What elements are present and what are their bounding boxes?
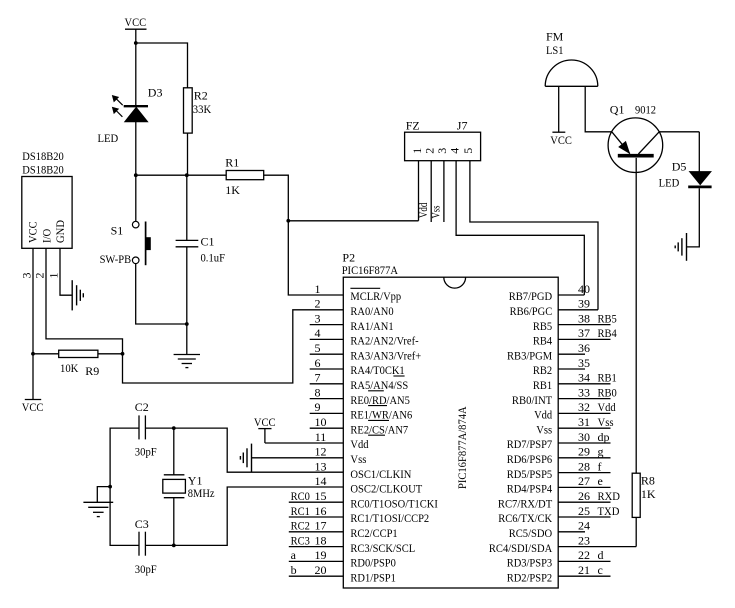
svg-text:RD2/PSP2: RD2/PSP2	[507, 570, 553, 584]
wire PIC pin 11 stub	[265, 442, 343, 444]
label LED (D3)	[98, 131, 119, 145]
wire PIC pin 16 stub	[289, 516, 344, 518]
wire R9 left	[33, 353, 59, 355]
svg-text:e: e	[598, 474, 603, 488]
pin number 14 (U1)	[315, 474, 327, 488]
pin name RC1/T1OSI/CCP2 (U1 pin 16)	[350, 511, 429, 525]
pin number 32 (U1)	[578, 400, 590, 414]
wire MCLR node to PIC pin1	[288, 221, 343, 295]
wire MCLR node to J7 pin1	[288, 220, 418, 222]
label C3	[135, 517, 149, 531]
svg-text:g: g	[598, 445, 604, 459]
mcu U1 P2 PIC16F877A body	[343, 277, 558, 588]
svg-text:RA2/AN2/Vref-: RA2/AN2/Vref-	[350, 334, 418, 348]
switch S1	[132, 221, 150, 265]
svg-text:RD7/PSP7: RD7/PSP7	[507, 437, 553, 451]
underline /RD (U1 pin 8)	[368, 405, 387, 407]
pin name Vdd (U1 pin 32)	[534, 408, 552, 422]
wire C1 bottom to ground node	[186, 247, 188, 324]
pin name RD1/PSP1 (U1 pin 20)	[350, 570, 396, 584]
value 8MHz (Y1)	[188, 486, 215, 500]
pin number 6 (U1)	[315, 356, 321, 370]
pin name RC0/T1OSO/T1CKI (U1 pin 15)	[350, 496, 438, 510]
pin name Vss (U1 pin 12)	[350, 452, 366, 466]
svg-text:RD3/PSP3: RD3/PSP3	[507, 556, 553, 570]
svg-text:RD1/PSP1: RD1/PSP1	[350, 570, 396, 584]
wire PIC pin 19 stub	[289, 560, 344, 562]
junction VCC node	[134, 41, 138, 45]
capacitor C2	[139, 415, 145, 439]
wire PIC pin 25 stub	[558, 516, 610, 518]
node RB1 (PIC pin 34)	[598, 371, 617, 385]
wire PIC pin 9 stub	[310, 412, 344, 414]
svg-text:1: 1	[315, 282, 321, 296]
pin name RD2/PSP2 (U1 pin 21)	[507, 570, 553, 584]
svg-text:2: 2	[315, 297, 321, 311]
pin name RD7/PSP7 (U1 pin 30)	[507, 437, 553, 451]
pin name RA3/AN3/Vref+ (U1 pin 5)	[350, 348, 421, 362]
svg-text:S1: S1	[111, 223, 124, 237]
LED D3	[112, 96, 148, 122]
wire PIC pin 34 stub	[558, 383, 610, 385]
node TXD (PIC pin 25)	[598, 504, 620, 518]
svg-text:23: 23	[578, 533, 590, 547]
pin number 34 (U1)	[578, 371, 590, 385]
pin number 25 (U1)	[578, 504, 590, 518]
LED D5	[688, 172, 711, 187]
wire PIC pin 31 stub	[558, 427, 610, 429]
svg-text:RC3: RC3	[291, 533, 310, 547]
wire PIC pin 40 stub	[558, 294, 584, 296]
net label Vdd (J7 pin1, rotated)	[416, 203, 430, 218]
wire J7 pin3 stub	[443, 161, 445, 222]
transistor Q1	[608, 118, 663, 173]
value 33K (R2)	[193, 102, 212, 116]
wire U2 I/O to R9 right node	[46, 248, 123, 353]
svg-text:39: 39	[578, 297, 590, 311]
svg-text:RC1/T1OSI/CCP2: RC1/T1OSI/CCP2	[350, 511, 429, 525]
pin name RA5/AN4/SS (U1 pin 7)	[350, 378, 408, 392]
svg-text:OSC1/CLKIN: OSC1/CLKIN	[350, 467, 411, 481]
pin number 24 (U1)	[578, 519, 590, 533]
svg-text:RC0/T1OSO/T1CKI: RC0/T1OSO/T1CKI	[350, 496, 438, 510]
wire VCC node to R2 top	[136, 43, 188, 88]
svg-text:RC6/TX/CK: RC6/TX/CK	[498, 511, 552, 525]
node dp (PIC pin 30)	[598, 430, 610, 444]
svg-text:15: 15	[315, 489, 327, 503]
wire PIC pin 23 stub	[558, 546, 636, 548]
speaker LS1	[545, 60, 598, 86]
pin number 4 (J7)	[447, 148, 461, 154]
label LS1	[546, 43, 564, 57]
svg-text:VCC: VCC	[550, 133, 572, 147]
pin name RB0/INT (U1 pin 33)	[512, 393, 553, 407]
svg-text:12: 12	[315, 445, 327, 459]
resistor R2	[184, 88, 193, 133]
svg-text:9: 9	[315, 400, 321, 414]
wire rail to C1 top	[186, 175, 188, 240]
pin number 5 (U1)	[315, 341, 321, 355]
junction U2-VCC / R9 left	[31, 352, 35, 356]
sensor U2 DS18B20 body	[22, 177, 72, 249]
svg-text:RC7/RX/DT: RC7/RX/DT	[498, 496, 553, 510]
svg-text:RB2: RB2	[533, 363, 552, 377]
svg-text:RE0/RD/AN5: RE0/RD/AN5	[350, 393, 410, 407]
svg-text:19: 19	[315, 548, 327, 562]
svg-text:Vdd: Vdd	[350, 437, 368, 451]
node f (PIC pin 28)	[598, 459, 602, 473]
svg-text:Vss: Vss	[428, 205, 442, 218]
power VCC (PIC pin 11)	[254, 415, 276, 443]
svg-text:FZ: FZ	[406, 119, 420, 133]
pin number 2 (U2 I/O)	[33, 273, 47, 279]
junction osc rail / ground	[108, 485, 112, 489]
svg-text:PIC16F877A: PIC16F877A	[342, 263, 399, 277]
wire osc bottom node to PIC pin14	[174, 487, 343, 545]
svg-text:34: 34	[578, 371, 590, 385]
svg-text:RD6/PSP6: RD6/PSP6	[507, 452, 553, 466]
value 30pF (C2)	[135, 445, 157, 459]
pin number 33 (U1)	[578, 385, 590, 399]
underline /AN4 (U1 pin 7)	[368, 390, 384, 392]
pin name Vss (U1 pin 31)	[536, 422, 552, 436]
svg-text:10: 10	[315, 415, 327, 429]
pin number 3 (J7)	[435, 148, 449, 154]
svg-text:a: a	[291, 548, 297, 562]
pin name OSC1/CLKIN (U1 pin 13)	[350, 467, 411, 481]
svg-text:R9: R9	[85, 364, 99, 378]
wire S1 bottom to ground node	[136, 264, 187, 324]
svg-text:J7: J7	[457, 119, 468, 133]
pin number 29 (U1)	[578, 445, 590, 459]
svg-text:RA3/AN3/Vref+: RA3/AN3/Vref+	[350, 348, 421, 362]
pin name OSC2/CLKOUT (U1 pin 14)	[350, 482, 422, 496]
pin name MCLR/Vpp (U1 pin 1)	[350, 289, 401, 303]
svg-text:RE2/CS/AN7: RE2/CS/AN7	[350, 422, 408, 436]
svg-text:3: 3	[315, 311, 321, 325]
svg-text:C2: C2	[135, 400, 149, 414]
value 9012 (Q1)	[635, 103, 656, 117]
svg-text:1K: 1K	[225, 183, 240, 197]
pin number 40 (U1)	[578, 282, 590, 296]
wire PIC pin 4 stub	[310, 338, 344, 340]
wire J7 pin2 stub	[430, 161, 432, 222]
svg-text:dp: dp	[598, 430, 610, 444]
svg-text:29: 29	[578, 445, 590, 459]
pin name RA1/AN1 (U1 pin 3)	[350, 319, 393, 333]
pin number 1 (J7)	[410, 148, 424, 154]
wire PIC pin 24 stub	[558, 531, 585, 533]
svg-text:RB4: RB4	[598, 326, 617, 340]
svg-text:RD5/PSP5: RD5/PSP5	[507, 467, 553, 481]
node c (PIC pin 21)	[598, 563, 603, 577]
pin name RD5/PSP5 (U1 pin 28)	[507, 467, 553, 481]
capacitor C3	[139, 532, 145, 556]
svg-text:1: 1	[46, 273, 60, 279]
underline /WR (U1 pin 9)	[368, 419, 389, 421]
label PIC16F877A/874A (rotated, inside U1)	[455, 406, 469, 489]
junction C3/Y1 bottom	[172, 544, 176, 548]
wire C3 to Y1 bottom node	[145, 544, 173, 546]
node RB4 (PIC pin 37)	[598, 326, 617, 340]
label D3	[148, 86, 163, 100]
pin number 1 (U2 GND)	[46, 273, 60, 279]
pin number 20 (U1)	[315, 563, 327, 577]
pin number 18 (U1)	[315, 533, 327, 547]
pin number 2 (U1)	[315, 297, 321, 311]
junction D3-rail	[134, 173, 138, 177]
svg-text:3: 3	[20, 273, 34, 279]
pin number 35 (U1)	[578, 356, 590, 370]
pin number 38 (U1)	[578, 311, 590, 325]
svg-text:21: 21	[578, 563, 590, 577]
wire PIC pin 8 stub	[310, 398, 344, 400]
label C2	[135, 400, 149, 414]
node Vdd (PIC pin 32)	[598, 400, 616, 414]
label R8	[641, 473, 655, 487]
wire PIC pin 21 stub	[558, 575, 610, 577]
pin number 19 (U1)	[315, 548, 327, 562]
ground (below C1)	[174, 324, 200, 368]
svg-text:9012: 9012	[635, 103, 656, 117]
svg-text:Vss: Vss	[350, 452, 366, 466]
junction R9 right / data node	[121, 352, 125, 356]
junction C2/Y1 top	[172, 426, 176, 430]
wire PIC pin 3 stub	[310, 324, 344, 326]
junction R2-rail	[185, 173, 189, 177]
wire osc left rail	[110, 428, 139, 545]
svg-text:R8: R8	[641, 473, 655, 487]
svg-text:0.1uF: 0.1uF	[201, 251, 226, 265]
node e (PIC pin 27)	[598, 474, 603, 488]
svg-text:VCC: VCC	[254, 415, 276, 429]
wire PIC pin 28 stub	[558, 472, 610, 474]
svg-text:Vdd: Vdd	[598, 400, 616, 414]
svg-text:I/O: I/O	[40, 228, 54, 243]
wire VCC node to D3 cathode	[135, 43, 137, 105]
node RB5 (PIC pin 38)	[598, 311, 617, 325]
svg-text:11: 11	[315, 430, 327, 444]
pin name RC7/RX/DT (U1 pin 26)	[498, 496, 553, 510]
wire PIC pin 36 stub	[558, 353, 585, 355]
resistor R1	[226, 171, 264, 180]
wire C2 to Y1 top node	[145, 427, 173, 429]
pin name RC6/TX/CK (U1 pin 25)	[498, 511, 552, 525]
pin number 3 (U2 VCC)	[20, 273, 34, 279]
svg-text:RB7/PGD: RB7/PGD	[509, 289, 553, 303]
wire PIC pin 22 stub	[558, 560, 610, 562]
pin number 2 (J7)	[423, 148, 437, 154]
node RC0 (PIC pin 15)	[291, 489, 310, 503]
wire R9 right	[98, 353, 123, 355]
svg-text:RA5/AN4/SS: RA5/AN4/SS	[350, 378, 408, 392]
node d (PIC pin 22)	[598, 548, 604, 562]
svg-text:C3: C3	[135, 517, 149, 531]
svg-text:b: b	[291, 563, 297, 577]
svg-text:f: f	[598, 459, 602, 473]
pin name RC5/SDO (U1 pin 24)	[509, 526, 553, 540]
label R2	[194, 89, 208, 103]
pin name RB2 (U1 pin 35)	[533, 363, 552, 377]
svg-text:20: 20	[315, 563, 327, 577]
label FZ (J7)	[406, 119, 420, 133]
wire PIC pin 26 stub	[558, 501, 610, 503]
pin name RA4/T0CK1 (U1 pin 6)	[350, 363, 404, 377]
pin name RB3/PGM (U1 pin 36)	[507, 348, 552, 362]
svg-text:RB4: RB4	[533, 334, 552, 348]
pin number 37 (U1)	[578, 326, 590, 340]
svg-text:VCC: VCC	[26, 221, 40, 243]
pin name RA0/AN0 (U1 pin 2)	[350, 304, 393, 318]
node RC3 (PIC pin 18)	[291, 533, 310, 547]
svg-text:RB1: RB1	[533, 378, 552, 392]
svg-text:24: 24	[578, 519, 590, 533]
pin name RD4/PSP4 (U1 pin 27)	[507, 482, 553, 496]
wire D3 anode to rail	[135, 122, 137, 176]
pin number 4 (U1)	[315, 326, 321, 340]
pin name RC4/SDI/SDA (U1 pin 23)	[489, 541, 553, 555]
svg-text:38: 38	[578, 311, 590, 325]
label PIC16F877A (above U1)	[342, 263, 399, 277]
svg-text:RA1/AN1: RA1/AN1	[350, 319, 393, 333]
wire PIC pin 15 stub	[289, 501, 344, 503]
svg-text:RB0/INT: RB0/INT	[512, 393, 553, 407]
svg-text:4: 4	[315, 326, 321, 340]
pin number 31 (U1)	[578, 415, 590, 429]
svg-text:28: 28	[578, 459, 590, 473]
ground (U2, rotated right)	[72, 280, 83, 310]
node RC1 (PIC pin 16)	[291, 504, 310, 518]
pin number 5 (J7)	[461, 148, 475, 154]
pin name RE0/RD/AN5 (U1 pin 8)	[350, 393, 410, 407]
svg-text:LS1: LS1	[546, 43, 564, 57]
svg-text:RC0: RC0	[291, 489, 310, 503]
svg-text:18: 18	[315, 533, 327, 547]
wire PIC pin 35 stub	[558, 368, 585, 370]
svg-text:Vss: Vss	[536, 422, 552, 436]
pin name RA2/AN2/Vref- (U1 pin 4)	[350, 334, 418, 348]
wire PIC pin 20 stub	[289, 575, 344, 577]
wire rail to S1	[135, 175, 137, 221]
svg-text:30pF: 30pF	[135, 445, 157, 459]
net label Vss (J7 pin2, rotated)	[428, 205, 442, 218]
svg-text:LED: LED	[659, 176, 680, 190]
svg-text:5: 5	[461, 148, 475, 154]
label LED (D5)	[659, 176, 680, 190]
svg-text:RB3/PGM: RB3/PGM	[507, 348, 552, 362]
wire LS1 left terminal	[558, 86, 560, 132]
value 10K (R9)	[60, 361, 79, 375]
svg-text:DS18B20: DS18B20	[22, 149, 63, 163]
pin name I/O (U2)	[40, 228, 54, 243]
pin name RD6/PSP6 (U1 pin 29)	[507, 452, 553, 466]
svg-text:D5: D5	[672, 160, 687, 174]
svg-text:6: 6	[315, 356, 321, 370]
svg-text:MCLR/Vpp: MCLR/Vpp	[350, 289, 401, 303]
svg-text:13: 13	[315, 459, 327, 473]
value 0.1uF (C1)	[201, 251, 226, 265]
svg-text:30pF: 30pF	[135, 562, 157, 576]
pin number 39 (U1)	[578, 297, 590, 311]
svg-text:35: 35	[578, 356, 590, 370]
svg-text:RC3/SCK/SCL: RC3/SCK/SCL	[350, 541, 415, 555]
svg-text:VCC: VCC	[125, 15, 147, 29]
pin number 3 (U1)	[315, 311, 321, 325]
node Vss (PIC pin 31)	[598, 415, 614, 429]
pin name RC3/SCK/SCL (U1 pin 18)	[350, 541, 415, 555]
wire J7 pin4 to PIC pin40	[456, 161, 584, 295]
wire PIC pin 38 stub	[558, 324, 610, 326]
power VCC (top, D3/R2 rail)	[125, 15, 147, 43]
wire PIC pin 17 stub	[289, 531, 344, 533]
pin number 27 (U1)	[578, 474, 590, 488]
svg-text:RB0: RB0	[598, 385, 617, 399]
resistor R8	[632, 473, 640, 517]
wire PIC pin 37 stub	[558, 338, 610, 340]
pin number 12 (U1)	[315, 445, 327, 459]
wire R1 to MCLR node	[264, 175, 289, 221]
label Y1	[188, 474, 203, 488]
label D5	[672, 160, 687, 174]
pin name RE2/CS/AN7 (U1 pin 10)	[350, 422, 408, 436]
node RB0 (PIC pin 33)	[598, 385, 617, 399]
pin number 9 (U1)	[315, 400, 321, 414]
svg-text:27: 27	[578, 474, 590, 488]
svg-text:4: 4	[447, 148, 461, 154]
svg-text:DS18B20: DS18B20	[22, 163, 63, 177]
svg-text:1K: 1K	[641, 487, 656, 501]
pin name VCC (U2)	[26, 221, 40, 243]
power VCC (bottom left, down)	[22, 354, 44, 414]
node a (PIC pin 19)	[291, 548, 297, 562]
svg-text:26: 26	[578, 489, 590, 503]
wire Q1 collector to D5	[659, 131, 699, 133]
wire PIC pin 7 stub	[310, 383, 344, 385]
junction MCLR node	[286, 219, 290, 223]
wire R2 bottom to rail	[187, 133, 189, 175]
svg-text:LED: LED	[98, 131, 119, 145]
svg-text:RXD: RXD	[598, 489, 621, 503]
node RC2 (PIC pin 17)	[291, 519, 310, 533]
svg-text:Q1: Q1	[610, 103, 625, 117]
value 1K (R1)	[225, 183, 240, 197]
pin number 11 (U1)	[315, 430, 327, 444]
svg-text:25: 25	[578, 504, 590, 518]
svg-text:33: 33	[578, 385, 590, 399]
svg-text:TXD: TXD	[598, 504, 620, 518]
label FM (LS1)	[546, 29, 564, 43]
svg-text:VCC: VCC	[22, 400, 44, 414]
wire J7 pin5 to PIC pin39	[470, 161, 598, 310]
svg-text:R1: R1	[225, 156, 239, 170]
svg-text:RB5: RB5	[533, 319, 552, 333]
pin number 16 (U1)	[315, 504, 327, 518]
ground (D5, rotated left)	[675, 233, 686, 261]
svg-text:14: 14	[315, 474, 327, 488]
pin number 15 (U1)	[315, 489, 327, 503]
value 1K (R8)	[641, 487, 656, 501]
wire PIC pin 32 stub	[558, 412, 610, 414]
svg-text:c: c	[598, 563, 603, 577]
node g (PIC pin 29)	[598, 445, 604, 459]
svg-text:d: d	[598, 548, 604, 562]
wire U2 VCC pin down	[32, 248, 34, 353]
svg-text:RC2/CCP1: RC2/CCP1	[350, 526, 397, 540]
wire R8 bottom to PIC pin23	[635, 517, 637, 546]
resistor R9	[59, 350, 98, 357]
pin number 7 (U1)	[315, 371, 321, 385]
wire osc top node to PIC pin13	[174, 428, 343, 472]
